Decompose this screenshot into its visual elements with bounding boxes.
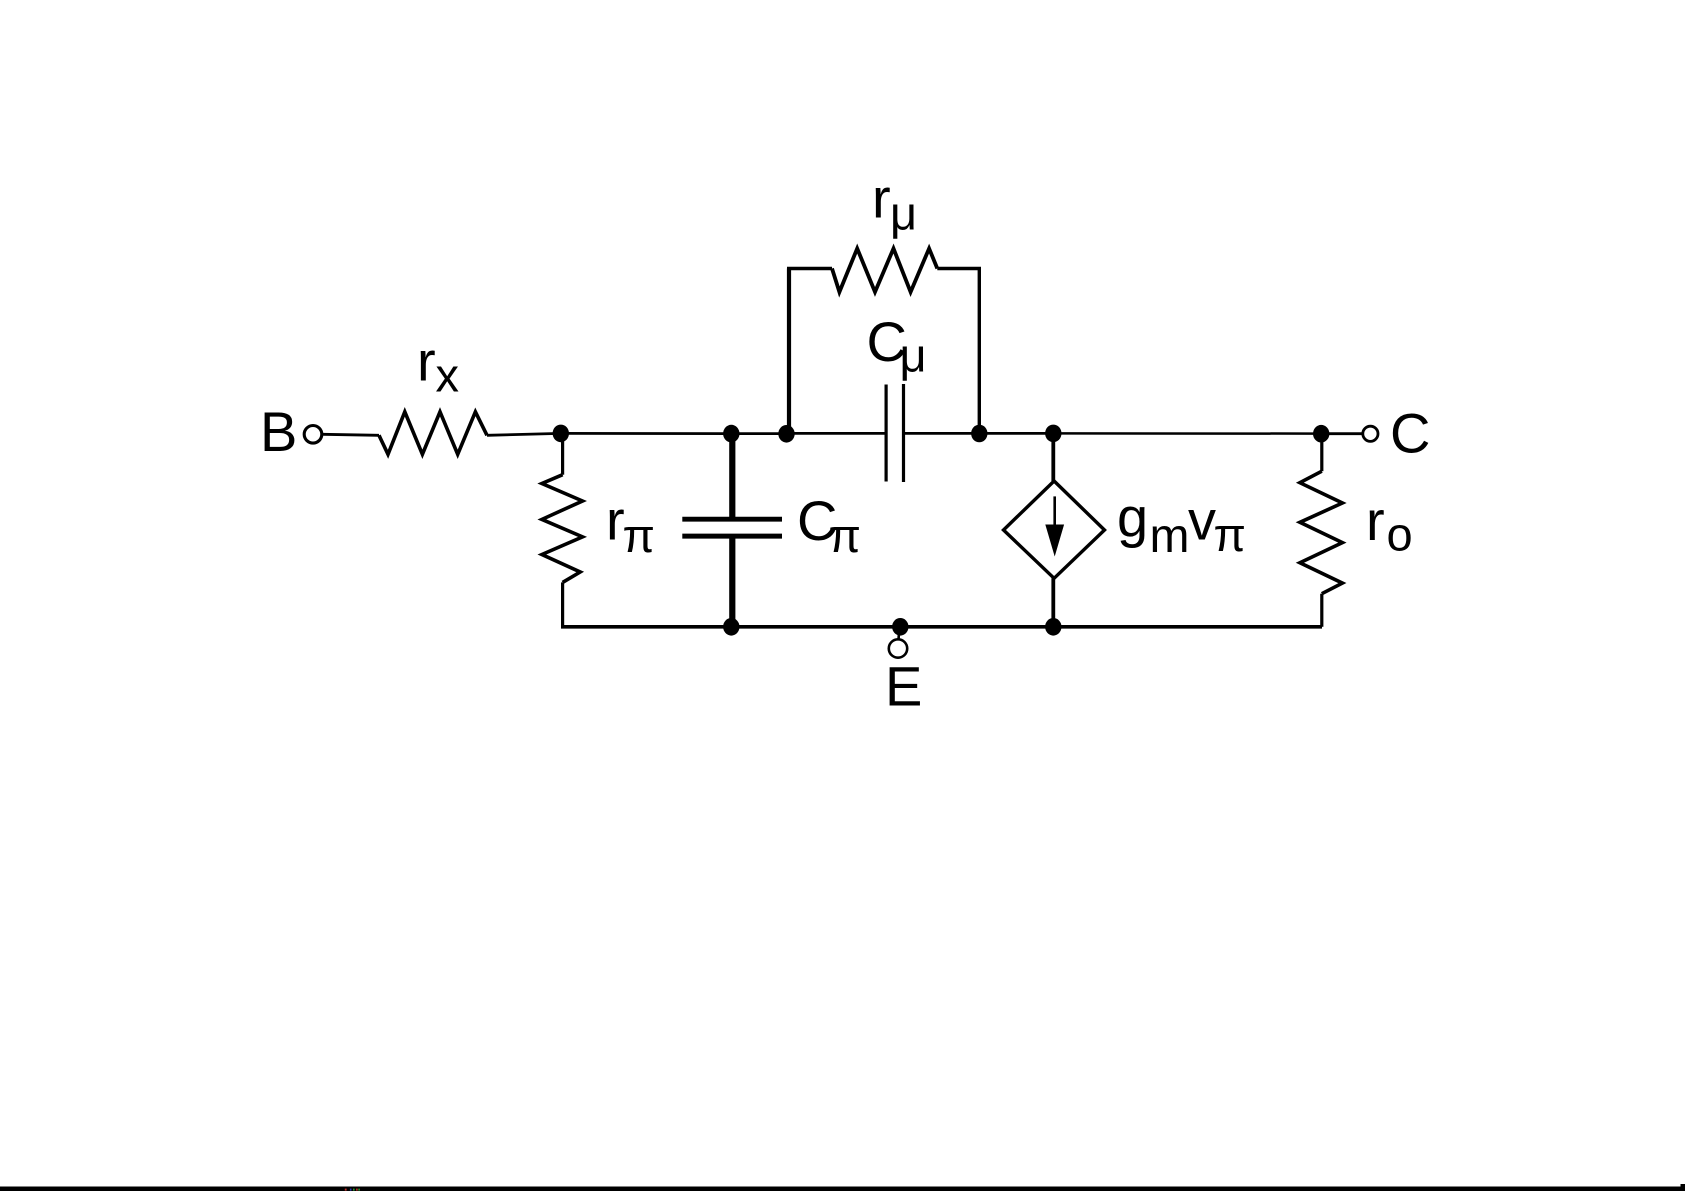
capacitor Cpi bottom plate: [682, 534, 782, 539]
resistor ro: [1300, 471, 1343, 594]
capacitor Cmu right plate: [902, 384, 905, 482]
label rx: [417, 330, 459, 402]
ro bottom leg wire: [1320, 594, 1323, 627]
rmu top-right wire: [937, 267, 981, 271]
rpi top leg wire: [561, 433, 564, 474]
node dot junction3 (rmu left): [778, 425, 794, 443]
resistor rx: [379, 412, 487, 455]
svg-text:o: o: [1387, 508, 1413, 561]
node dot junction6 (ro top): [1313, 425, 1329, 443]
wire node1 to node2: [561, 432, 731, 435]
node B label: [260, 400, 297, 463]
wire node2 to node3: [731, 432, 787, 435]
wire node4 to node5: [979, 432, 1053, 435]
node dot junction5 (source top): [1045, 425, 1061, 443]
svg-text:B: B: [260, 400, 297, 463]
capacitor Cpi top plate: [682, 517, 782, 522]
bottom screen-edge black bar: [0, 1187, 1685, 1191]
node dot junction2 (Cpi top): [723, 425, 739, 443]
label Cpi: [797, 489, 861, 562]
node E label: [885, 655, 922, 718]
node dot bottom source: [1045, 618, 1061, 636]
svg-text:π: π: [1214, 508, 1246, 561]
ro top leg wire: [1320, 434, 1323, 472]
svg-text:v: v: [1188, 489, 1216, 552]
svg-text:x: x: [436, 349, 460, 402]
rmu top-left wire: [787, 267, 832, 271]
bottom bar corner nub: [1681, 1184, 1685, 1188]
wire Cmu right plate to node4: [904, 432, 980, 435]
terminal E: [889, 639, 907, 657]
capacitor Cmu left plate: [884, 385, 887, 482]
svg-text:μ: μ: [890, 187, 917, 240]
wire B to rx: [323, 434, 379, 435]
svg-text:E: E: [885, 655, 922, 718]
svg-text:π: π: [829, 509, 861, 562]
dependent source top leg wire: [1051, 433, 1055, 481]
svg-text:π: π: [623, 509, 655, 562]
dependent source bottom leg wire: [1051, 578, 1055, 627]
svg-text:g: g: [1117, 486, 1148, 549]
node dot bottom E: [892, 618, 908, 636]
capacitor Cpi top stem: [729, 434, 735, 518]
rmu right leg wire: [978, 269, 981, 434]
svg-text:r: r: [417, 330, 436, 393]
svg-text:m: m: [1150, 510, 1190, 563]
label rmu: [872, 167, 917, 240]
source arrow head: [1045, 525, 1064, 557]
terminal B: [304, 426, 322, 444]
dependent current source gmvpi (diamond): [1004, 481, 1105, 578]
source arrow shaft: [1053, 496, 1056, 530]
svg-text:r: r: [1366, 489, 1385, 552]
label gmvpi: [1117, 486, 1246, 564]
node C label: [1390, 402, 1430, 465]
E stub wire: [897, 627, 900, 640]
bottom wire (E rail): [561, 625, 1322, 629]
rmu left leg wire: [787, 269, 791, 432]
svg-text:r: r: [872, 167, 891, 230]
node dot junction4 (rmu right): [971, 425, 987, 443]
node dot bottom Cpi: [723, 618, 739, 636]
svg-text:C: C: [1390, 402, 1430, 465]
svg-text:μ: μ: [900, 329, 927, 382]
wire node6 to terminal C: [1321, 432, 1362, 435]
capacitor Cpi bottom stem: [729, 537, 735, 627]
resistor rpi: [542, 475, 583, 583]
wire node5 to node6: [1053, 432, 1321, 435]
node dot junction1: [553, 425, 569, 443]
resistor rmu: [832, 249, 937, 293]
label ro: [1366, 489, 1413, 561]
label Cmu: [867, 310, 927, 382]
rpi bottom leg wire: [561, 582, 564, 626]
terminal C: [1363, 426, 1378, 441]
label rpi: [606, 489, 655, 563]
bottom bar colored artifact pixels: [345, 1189, 360, 1191]
wire node3 to Cmu left plate: [787, 432, 885, 435]
wire rx to node1: [487, 433, 561, 435]
